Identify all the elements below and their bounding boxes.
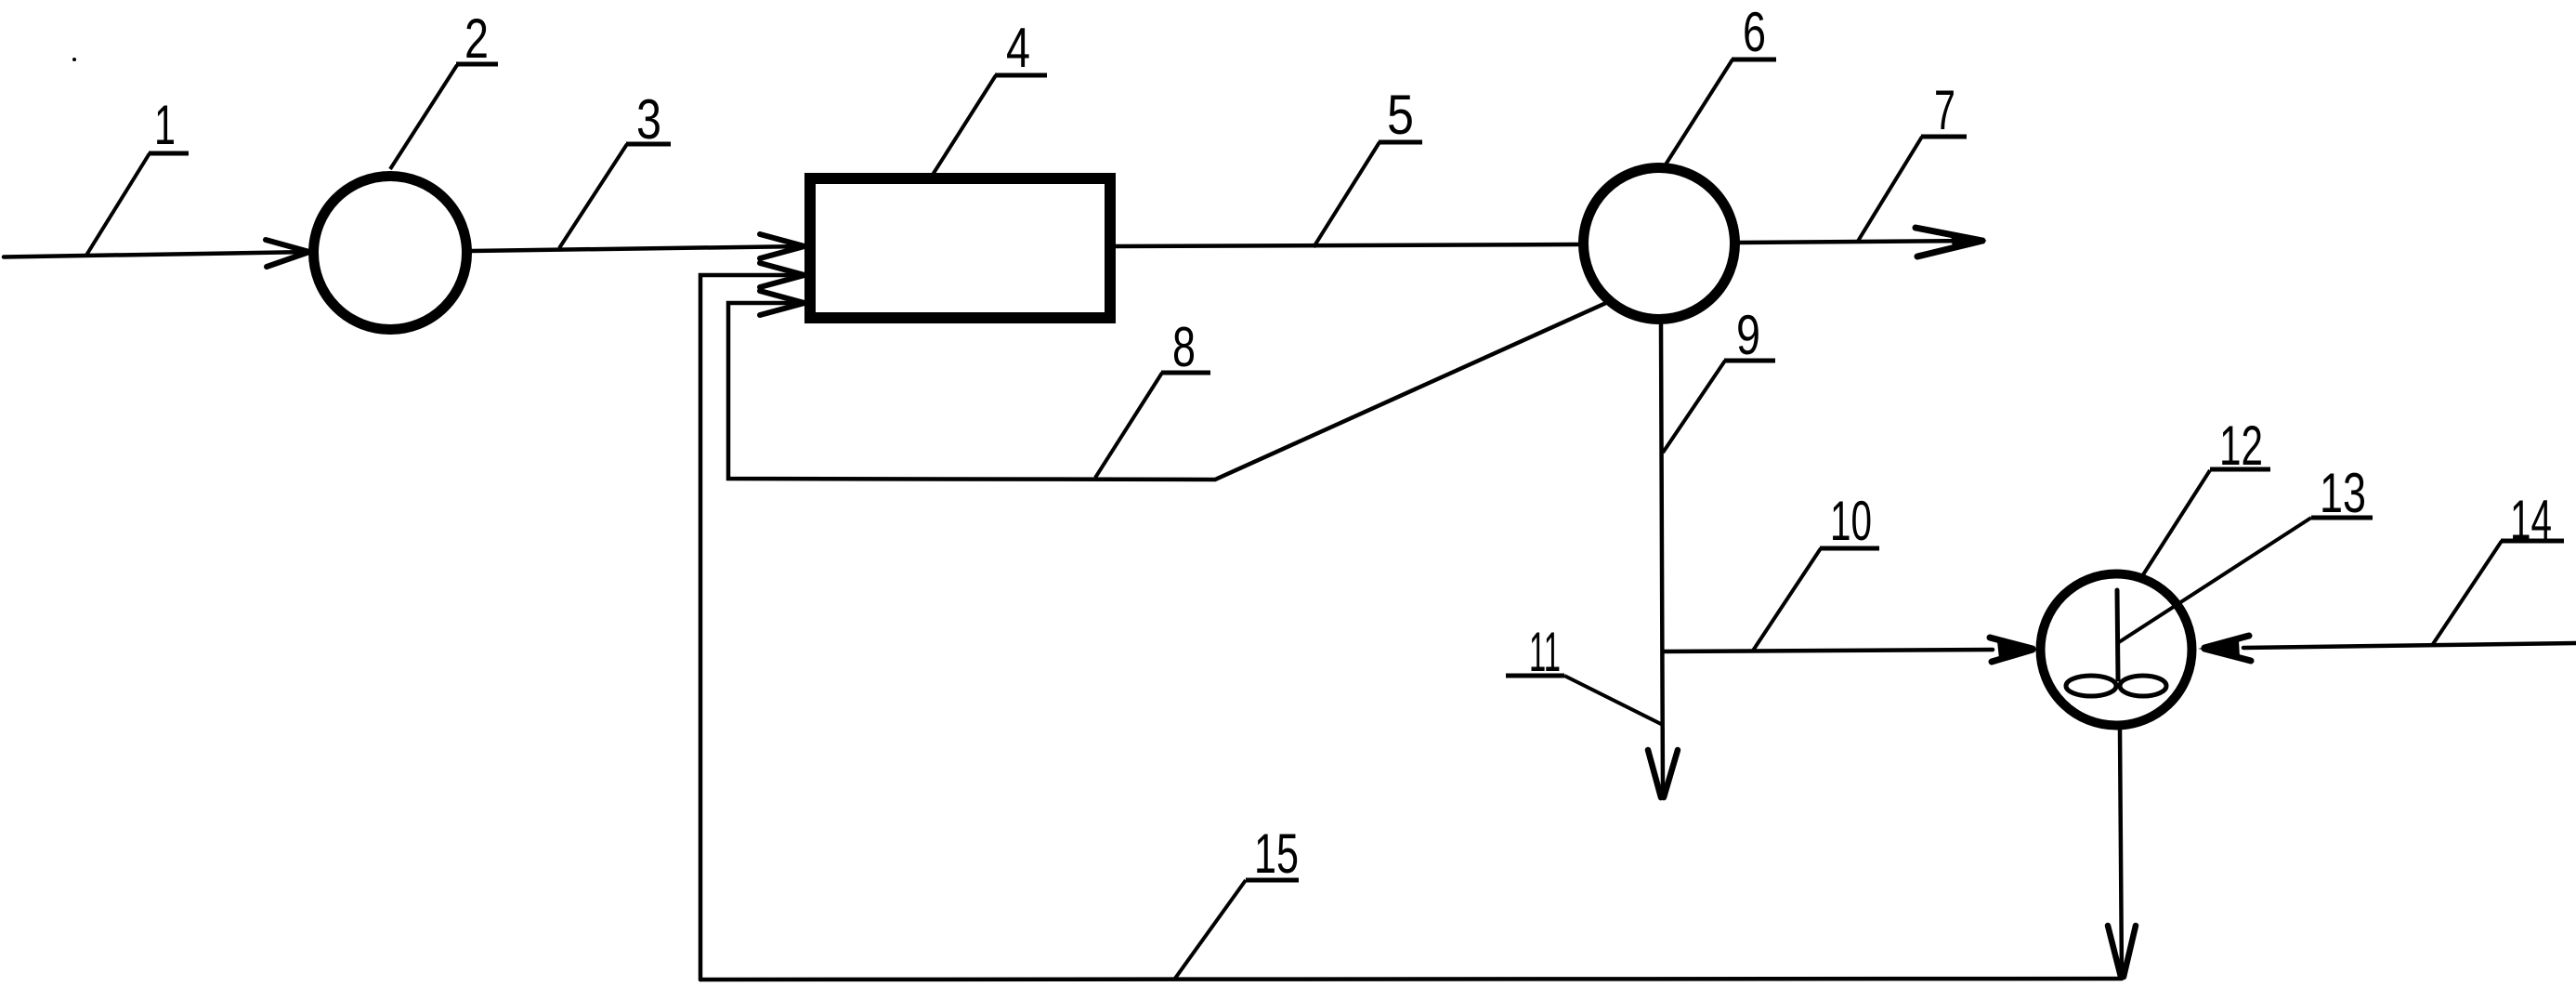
label 7 (1857, 79, 1967, 243)
circle 6 (separator) (1584, 168, 1735, 320)
wire line 15 (bottom recycle) (700, 979, 2122, 980)
svg-text:13: 13 (2320, 462, 2366, 524)
label 15 (1174, 822, 1299, 980)
label 13 (2119, 462, 2373, 642)
svg-text:10: 10 (1830, 490, 1872, 552)
arrowhead on line 1 into circle 2 (266, 240, 309, 267)
svg-text:15: 15 (1254, 822, 1299, 885)
svg-text:6: 6 (1743, 1, 1766, 63)
arrowhead input 1 into reactor 4 (760, 234, 804, 258)
wire line 3 (circle 2 to reactor 4) (469, 246, 804, 251)
label 9 (1663, 304, 1775, 453)
svg-text:2: 2 (464, 7, 489, 70)
agitator 13 shaft inside circle 12 (2117, 590, 2118, 679)
stray scan dot (72, 58, 76, 61)
arrowhead line 7 (1916, 228, 1987, 257)
label 8 (1095, 316, 1210, 478)
wire line 7 (circle 6 product out) (1737, 241, 1979, 243)
wire recycle riser (line 15 return) into reactor input 2 (700, 275, 804, 980)
svg-text:1: 1 (154, 94, 176, 156)
label 4 (931, 17, 1047, 178)
svg-text:9: 9 (1736, 304, 1760, 366)
svg-text:5: 5 (1387, 84, 1414, 146)
wire line 9 (circle 6 bottoms, vertical) (1661, 324, 1663, 796)
arrowhead line 14 into circle 12 (2198, 636, 2251, 661)
arrowhead input 3 into reactor 4 (760, 291, 804, 315)
label 10 (1753, 490, 1879, 651)
label 6 (1666, 1, 1776, 164)
svg-text:8: 8 (1172, 316, 1196, 378)
label 12 (2142, 414, 2270, 576)
circle 12 (stirred mixer) (2041, 574, 2192, 726)
svg-text:7: 7 (1934, 79, 1955, 141)
reactor box 4 (810, 178, 1110, 318)
label 2 (390, 7, 498, 169)
label 14 (2433, 489, 2564, 644)
wire line 1 (feed line into circle 2) (4, 252, 310, 257)
label 11 (1506, 621, 1663, 725)
label 3 (559, 88, 671, 248)
wire line 10 (to mixer 12) (1663, 650, 1993, 651)
agitator 13 propeller blades (2066, 676, 2166, 696)
svg-text:3: 3 (636, 88, 661, 151)
arrowhead 11 at end of line 9 (1648, 750, 1678, 797)
wire line 5 (reactor 4 to circle 6) (1116, 244, 1579, 246)
arrowhead input 2 into reactor 4 (760, 263, 804, 287)
label 5 (1314, 84, 1422, 247)
label 1 (86, 94, 189, 256)
wire drop from circle 12 to line 15 (2120, 730, 2122, 978)
svg-text:4: 4 (1006, 17, 1030, 79)
wire line 8 return into reactor input 3 (728, 302, 1608, 480)
circle 2 (preheater) (314, 177, 467, 330)
wire line 14 (right feed into circle 12) (2243, 643, 2576, 648)
arrowhead at bottom of circle 12 drop (2108, 926, 2136, 977)
arrowhead line 10 into circle 12 (1990, 638, 2036, 662)
